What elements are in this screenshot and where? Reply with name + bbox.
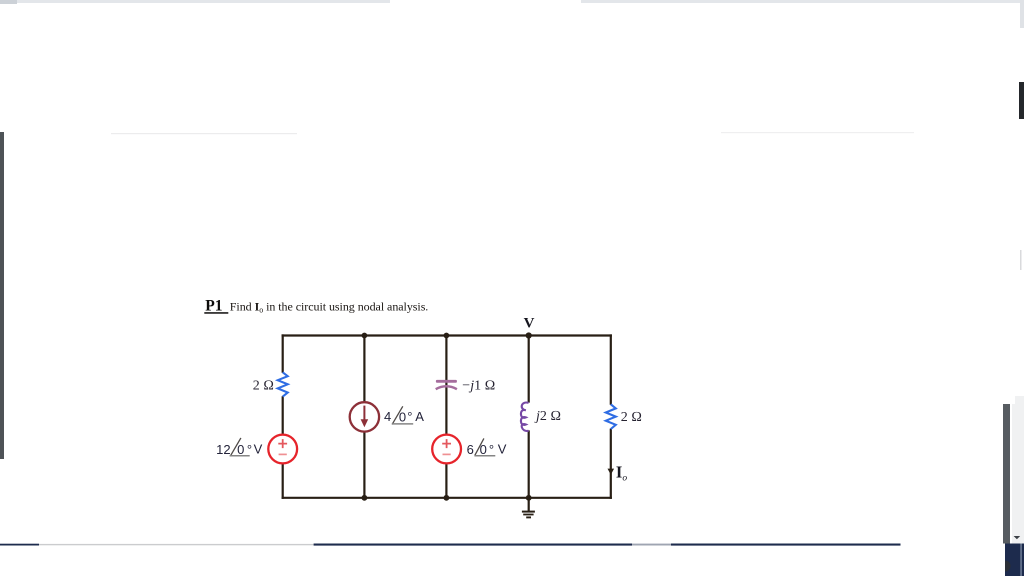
svg-text:V: V [498,442,507,457]
svg-text:j2 Ω: j2 Ω [534,409,561,424]
svg-text:P1: P1 [205,297,222,314]
svg-text:Find Io in the circuit using n: Find Io in the circuit using nodal analy… [230,299,429,314]
svg-text:o: o [622,473,627,483]
svg-text:2 Ω: 2 Ω [253,379,274,394]
svg-text:2 Ω: 2 Ω [621,410,642,425]
svg-text:4: 4 [384,409,391,424]
svg-text:12: 12 [216,442,230,457]
svg-text:V: V [254,442,263,457]
svg-text:°: ° [247,442,252,457]
svg-text:I: I [616,462,622,481]
svg-text:°: ° [407,409,412,424]
svg-text:−j1 Ω: −j1 Ω [462,379,495,394]
svg-text:A: A [415,409,424,424]
svg-text:°: ° [489,442,494,457]
svg-text:6: 6 [467,442,474,457]
svg-text:V: V [524,316,535,332]
